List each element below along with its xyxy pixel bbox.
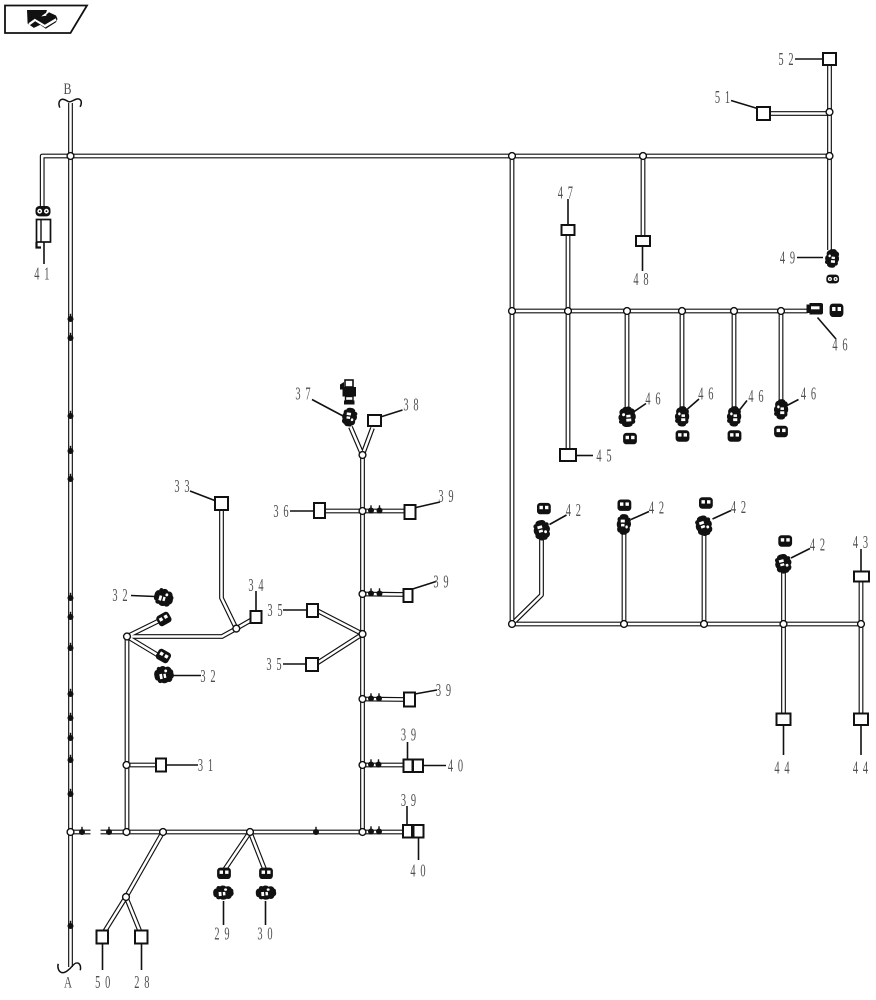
svg-text:4: 4 <box>853 758 858 778</box>
svg-text:4: 4 <box>801 384 806 404</box>
svg-text:4: 4 <box>863 758 868 778</box>
svg-text:2: 2 <box>134 972 139 992</box>
svg-text:4: 4 <box>645 389 650 409</box>
svg-text:A: A <box>64 974 73 991</box>
svg-text:4: 4 <box>258 575 263 595</box>
svg-text:6: 6 <box>283 501 288 521</box>
svg-text:4: 4 <box>558 183 563 203</box>
svg-text:8: 8 <box>144 972 149 992</box>
svg-text:0: 0 <box>267 924 272 944</box>
svg-text:4: 4 <box>780 247 785 267</box>
svg-text:7: 7 <box>568 183 573 203</box>
svg-text:3: 3 <box>248 575 253 595</box>
svg-text:9: 9 <box>411 725 416 745</box>
svg-text:4: 4 <box>34 264 39 284</box>
svg-text:4: 4 <box>649 497 654 517</box>
svg-text:3: 3 <box>433 571 438 591</box>
svg-text:3: 3 <box>273 501 278 521</box>
svg-text:4: 4 <box>784 758 789 778</box>
svg-text:2: 2 <box>576 500 581 520</box>
svg-text:3: 3 <box>112 585 117 605</box>
svg-text:9: 9 <box>790 247 795 267</box>
svg-text:4: 4 <box>853 532 858 552</box>
svg-text:2: 2 <box>820 535 825 555</box>
svg-text:3: 3 <box>403 394 408 414</box>
svg-text:3: 3 <box>200 666 205 686</box>
svg-text:4: 4 <box>566 500 571 520</box>
svg-text:4: 4 <box>448 755 453 775</box>
svg-text:6: 6 <box>708 384 713 404</box>
svg-text:5: 5 <box>606 445 611 465</box>
svg-text:3: 3 <box>266 654 271 674</box>
svg-text:9: 9 <box>448 486 453 506</box>
svg-text:6: 6 <box>811 384 816 404</box>
svg-text:4: 4 <box>633 269 638 289</box>
svg-text:2: 2 <box>210 666 215 686</box>
svg-text:3: 3 <box>863 532 868 552</box>
svg-text:4: 4 <box>832 335 837 355</box>
svg-text:3: 3 <box>401 725 406 745</box>
svg-text:1: 1 <box>44 264 49 284</box>
svg-text:2: 2 <box>788 49 793 69</box>
svg-text:5: 5 <box>715 87 720 107</box>
svg-text:3: 3 <box>295 383 300 403</box>
svg-text:6: 6 <box>655 389 660 409</box>
svg-text:3: 3 <box>436 680 441 700</box>
svg-text:2: 2 <box>214 924 219 944</box>
svg-text:4: 4 <box>698 384 703 404</box>
svg-text:4: 4 <box>596 445 601 465</box>
svg-text:4: 4 <box>774 758 779 778</box>
svg-text:9: 9 <box>443 571 448 591</box>
svg-text:3: 3 <box>438 486 443 506</box>
svg-text:9: 9 <box>411 790 416 810</box>
svg-text:8: 8 <box>643 269 648 289</box>
svg-text:3: 3 <box>198 755 203 775</box>
svg-text:1: 1 <box>725 87 730 107</box>
svg-text:6: 6 <box>842 335 847 355</box>
svg-text:B: B <box>64 81 72 98</box>
svg-text:5: 5 <box>778 49 783 69</box>
svg-text:3: 3 <box>257 924 262 944</box>
svg-text:5: 5 <box>95 972 100 992</box>
svg-text:2: 2 <box>122 585 127 605</box>
svg-text:3: 3 <box>184 476 189 496</box>
svg-text:3: 3 <box>174 476 179 496</box>
svg-text:8: 8 <box>413 394 418 414</box>
svg-text:3: 3 <box>267 600 272 620</box>
svg-text:0: 0 <box>420 860 425 880</box>
svg-text:3: 3 <box>401 790 406 810</box>
svg-text:0: 0 <box>458 755 463 775</box>
svg-text:0: 0 <box>105 972 110 992</box>
svg-text:7: 7 <box>305 383 310 403</box>
svg-text:9: 9 <box>224 924 229 944</box>
svg-text:2: 2 <box>741 497 746 517</box>
svg-text:5: 5 <box>276 654 281 674</box>
svg-text:4: 4 <box>410 860 415 880</box>
svg-text:4: 4 <box>810 535 815 555</box>
svg-text:4: 4 <box>731 497 736 517</box>
svg-text:4: 4 <box>748 386 753 406</box>
svg-text:6: 6 <box>758 386 763 406</box>
svg-text:1: 1 <box>208 755 213 775</box>
svg-text:9: 9 <box>446 680 451 700</box>
svg-text:5: 5 <box>277 600 282 620</box>
svg-text:2: 2 <box>659 497 664 517</box>
